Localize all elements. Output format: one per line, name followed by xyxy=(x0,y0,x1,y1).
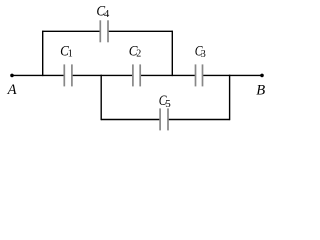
capacitor C2 xyxy=(133,64,140,86)
wire: middle A to C1 xyxy=(12,74,64,76)
svg-text:4: 4 xyxy=(104,8,110,20)
wire: bottom right segment xyxy=(168,119,230,121)
wire: top left segment xyxy=(43,30,101,32)
wire: top-right vertical xyxy=(171,31,173,77)
svg-text:A: A xyxy=(7,82,17,98)
wire: left vertical xyxy=(42,31,44,77)
capacitor C5 xyxy=(160,108,168,130)
capacitor C3 xyxy=(196,64,203,86)
svg-text:B: B xyxy=(256,83,265,99)
svg-text:1: 1 xyxy=(68,49,73,60)
svg-text:3: 3 xyxy=(201,49,206,60)
wire: bottom-right vertical xyxy=(229,75,231,121)
svg-text:2: 2 xyxy=(136,49,141,60)
node A xyxy=(10,74,14,78)
wire: top right segment xyxy=(108,30,172,32)
wire: bottom left segment xyxy=(101,119,160,121)
wire: bottom-left vertical xyxy=(100,75,102,121)
wire: middle C2 to C3 xyxy=(140,74,195,76)
capacitor C4 xyxy=(100,20,108,42)
wire: middle C1 to C2 xyxy=(72,74,133,76)
capacitor C1 xyxy=(64,64,72,86)
node B xyxy=(260,74,264,78)
wire: middle C3 to B xyxy=(203,74,263,76)
svg-text:5: 5 xyxy=(165,98,171,110)
